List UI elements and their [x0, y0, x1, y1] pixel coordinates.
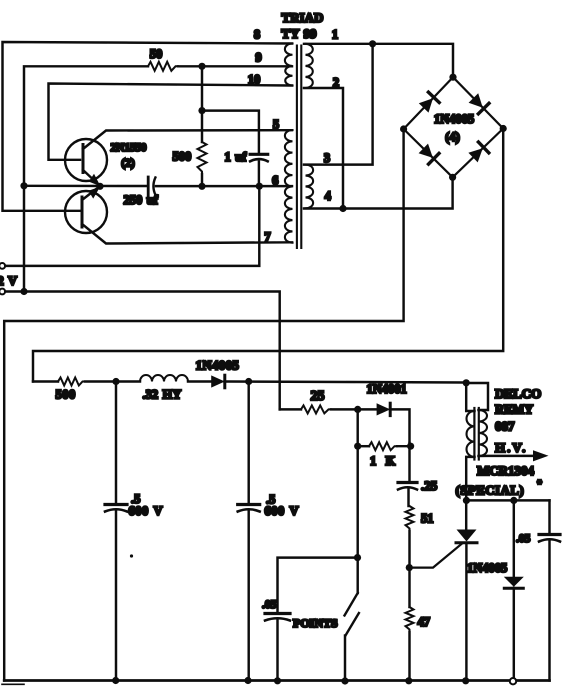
capacitor .25: [398, 483, 417, 490]
svg-text:1: 1: [370, 454, 376, 468]
svg-text:TY 99: TY 99: [281, 26, 317, 41]
label .25: [421, 478, 438, 493]
label POINTS: [293, 616, 338, 630]
svg-text:REMY: REMY: [495, 403, 533, 417]
wire node to 1uf cap: [202, 111, 259, 153]
node anode-diode junction: [510, 497, 517, 504]
svg-text:600 V: 600 V: [265, 504, 299, 518]
label 1 K: [370, 454, 396, 468]
wire below resistor 500: [201, 174, 203, 186]
wire node to 47: [408, 568, 410, 607]
node lineB delco: [463, 379, 470, 386]
wire points bottom: [344, 636, 346, 682]
transformer T1 core: [297, 46, 301, 249]
wire .05 right bottom: [548, 541, 550, 681]
node rail diode: [510, 678, 516, 684]
label .05 left: [262, 599, 277, 611]
wire pin6 line: [24, 185, 147, 188]
label 1N4005 bottom: [467, 561, 507, 575]
capacitor .05 left: [265, 614, 290, 621]
label pin 9: [255, 51, 261, 65]
svg-text:8: 8: [254, 27, 260, 41]
node 1uf bottom: [256, 183, 263, 190]
diode 1N4005 bottom: [504, 577, 524, 588]
wire H.V. output: [479, 455, 536, 458]
label 2 V: [0, 274, 17, 288]
wire bottom rail: [4, 679, 549, 682]
node gate junction: [406, 564, 413, 571]
wire .05 left bottom: [276, 621, 278, 681]
label 500 bottom: [56, 388, 76, 402]
wire lineB seg3: [188, 380, 211, 382]
svg-text:.25: .25: [421, 478, 438, 493]
wire pin8 top-left loop: [3, 42, 293, 211]
label 600 V #1: [129, 504, 163, 518]
svg-text:10: 10: [248, 73, 261, 87]
capacitor 250uf right plate: [153, 178, 155, 196]
node pin2-pin4 junction: [339, 205, 346, 212]
label TRIAD: [282, 10, 324, 25]
wire lineC mid: [331, 408, 377, 410]
wire 1uf bottom: [258, 162, 260, 187]
label 47: [418, 615, 431, 629]
diode bridge top-left: [419, 92, 439, 112]
SCR gate: [409, 544, 462, 568]
label 1 uf: [225, 150, 248, 164]
node bridge left: [400, 125, 407, 132]
transformer T2 primary winding: [467, 411, 475, 457]
wire pin3 riser: [304, 44, 373, 165]
svg-text:(4): (4): [445, 130, 460, 144]
stray speck: [130, 554, 133, 557]
svg-text:TRIAD: TRIAD: [282, 10, 324, 25]
wire 47 bottom: [408, 632, 410, 681]
wire SCR anode line: [466, 499, 549, 501]
node bridge right: [500, 125, 507, 132]
wire above resistor 500: [201, 111, 203, 142]
wire lineB seg2: [85, 380, 140, 382]
label 087: [495, 418, 515, 433]
transistor Q1 circle: [65, 139, 107, 181]
node 1K left: [354, 443, 361, 450]
node pin6 left: [20, 182, 27, 189]
stray mark below rail: [2, 683, 24, 685]
svg-text:.32 HY: .32 HY: [143, 388, 182, 402]
label pin 5: [273, 117, 279, 131]
wire pin2 riser: [304, 88, 343, 209]
node rail SCR: [462, 677, 469, 684]
node lineC junction: [354, 406, 361, 413]
node lineB cap1: [112, 378, 119, 385]
node 500/1uf junction: [198, 107, 205, 114]
wire bridge edge bottom-left: [404, 129, 453, 177]
wire 1K left stub: [358, 445, 369, 447]
wire bridge edge top-left: [404, 77, 453, 129]
label 250 uf: [124, 193, 159, 207]
node rail points: [341, 677, 348, 684]
svg-text:1N4005: 1N4005: [434, 112, 474, 126]
label (4) bridge: [445, 130, 460, 144]
transistor Q2 emitter arrow: [89, 187, 101, 199]
transformer T2 secondary winding: [479, 410, 488, 456]
transistor Q2 collector: [82, 224, 292, 244]
diode bridge bottom-left: [419, 144, 439, 165]
wire .25 top stub: [408, 443, 410, 482]
label pin 2: [333, 76, 339, 90]
transformer T1 winding 5-7: [285, 130, 293, 243]
svg-text:(2): (2): [121, 158, 135, 170]
wire cap2 bottom: [247, 512, 249, 681]
capacitor .05 right: [539, 535, 560, 542]
wire bridge left to left rail: [4, 129, 403, 681]
diode 1N4001: [377, 403, 391, 415]
wire lineC right: [390, 409, 410, 443]
label (2): [121, 158, 135, 170]
svg-text:H.V.: H.V.: [495, 440, 527, 455]
label 1N4005 lineB: [196, 358, 240, 373]
svg-text:50: 50: [150, 47, 163, 61]
wire lineC left: [280, 408, 301, 410]
node bridge top: [449, 74, 456, 81]
label .32 HY: [143, 388, 182, 402]
svg-text:47: 47: [418, 615, 431, 629]
wire terminal2 line: [5, 292, 280, 410]
svg-text:2N1550: 2N1550: [111, 142, 147, 154]
wire cap1 top: [115, 382, 117, 504]
svg-text:*: *: [537, 479, 542, 490]
svg-text:500: 500: [56, 388, 76, 402]
svg-text:1N4005: 1N4005: [467, 561, 507, 575]
svg-text:K: K: [386, 454, 396, 468]
wire lineB left stub: [33, 380, 58, 382]
switch points blade upper: [345, 593, 358, 616]
terminal circle upper: [0, 263, 5, 269]
resistor 51: [406, 506, 414, 531]
label 1N4005 bridge: [434, 112, 474, 126]
svg-text:250 uf: 250 uf: [124, 193, 159, 207]
node terminal2 riser: [20, 288, 27, 295]
wire pin4 line: [304, 177, 453, 208]
wire cap2 top: [247, 382, 249, 504]
svg-text:1 uf: 1 uf: [225, 150, 248, 164]
label 500 top: [173, 149, 192, 163]
node emitter junction: [96, 183, 103, 190]
label H.V.: [495, 440, 527, 455]
node rail .05 left: [274, 677, 281, 684]
label REMY: [495, 403, 533, 417]
label pin 7: [264, 230, 270, 244]
label 2N1550: [111, 142, 147, 154]
label 50: [150, 47, 163, 61]
label (SPECIAL)*: [456, 479, 543, 498]
svg-text:5: 5: [273, 117, 279, 131]
wire delco primary top: [466, 383, 474, 411]
node .05 branch: [354, 554, 361, 561]
label DELCO: [495, 386, 541, 401]
node SCR anode line left: [463, 497, 470, 504]
svg-text:POINTS: POINTS: [293, 616, 338, 630]
wire bridge edge bottom-right: [453, 129, 504, 178]
node rail cap2: [244, 677, 251, 684]
svg-text:7: 7: [264, 230, 270, 244]
node pin9-500 junction: [198, 63, 205, 70]
transistor Q1 base bar: [82, 145, 85, 173]
transistor Q2 emitter: [82, 188, 98, 200]
svg-text:1N4001: 1N4001: [367, 382, 407, 396]
svg-text:600 V: 600 V: [129, 504, 163, 518]
switch points blade lower: [346, 613, 359, 636]
wire 500 top riser: [201, 66, 203, 110]
wire 51 to node: [408, 531, 410, 568]
svg-text:1N4005: 1N4005: [196, 358, 240, 373]
inductor .32 HY: [140, 375, 188, 381]
node lineB cap2: [245, 378, 252, 385]
svg-text:9: 9: [255, 51, 261, 65]
wire .05 branch: [278, 558, 358, 612]
transistor Q2 circle: [65, 191, 107, 233]
svg-text:4: 4: [325, 189, 332, 203]
label pin 3: [324, 151, 330, 165]
transistor Q2 base bar: [81, 197, 84, 227]
capacitor 1uf plates: [250, 154, 268, 161]
svg-text:087: 087: [495, 418, 515, 433]
capacitor 250uf left plate: [147, 177, 150, 196]
svg-text:2: 2: [333, 76, 339, 90]
capacitor .5 600V #1: [105, 505, 127, 512]
transistor Q1 emitter: [83, 170, 99, 185]
diode bridge top-right: [469, 93, 489, 114]
wire bridge edge top-right: [453, 77, 503, 128]
wire delco bottom to SCR: [466, 457, 474, 529]
wire .25 to 51: [407, 490, 409, 507]
wire pin1 to bridge: [304, 44, 453, 77]
wire mid vertical upper: [356, 409, 358, 446]
wire pin6 line right: [156, 185, 292, 187]
svg-text:.05: .05: [516, 533, 531, 545]
label .5 #1: [131, 492, 140, 506]
label 1N4001: [367, 382, 407, 396]
node rail 47: [405, 677, 412, 684]
wire 1K right stub: [397, 445, 411, 447]
transformer T2 core: [474, 408, 478, 460]
label 600 V #2: [265, 504, 299, 518]
svg-text:2 V: 2 V: [0, 274, 17, 288]
transformer T1 winding 3-4: [306, 165, 314, 209]
wire diode 1N4005 top: [513, 500, 515, 577]
svg-text:(SPECIAL): (SPECIAL): [456, 483, 525, 498]
wire terminal1 line: [5, 186, 259, 266]
SCR triangle: [457, 530, 477, 542]
label MCR1304: [477, 463, 535, 478]
resistor 25: [301, 405, 331, 413]
label pin 10: [248, 73, 261, 87]
node 500 bottom: [198, 183, 205, 190]
svg-text:3: 3: [324, 151, 330, 165]
arrow H.V.: [533, 450, 549, 461]
label pin 1: [332, 28, 338, 42]
wire cap1 bottom: [115, 512, 117, 681]
label 51: [421, 512, 434, 526]
resistor 47: [406, 607, 414, 632]
svg-text:25: 25: [311, 389, 325, 404]
wire pin9 line: [24, 66, 148, 291]
label pin 6: [272, 173, 278, 187]
node pin1-pin3 junction: [369, 40, 376, 47]
diode 1N4005 lineB: [211, 375, 225, 388]
wire SCR cathode down: [465, 543, 467, 681]
svg-text:6: 6: [272, 173, 278, 187]
wire delco secondary top: [466, 383, 488, 410]
transistor Q1 emitter arrow: [89, 174, 101, 186]
resistor 1K: [369, 442, 397, 450]
node 1K right: [407, 443, 414, 450]
wire bridge right to line A: [33, 129, 503, 382]
wire pin10 and Q1 base riser: [49, 84, 293, 160]
label pin 8: [254, 27, 260, 41]
svg-text:MCR1304: MCR1304: [477, 463, 535, 478]
capacitor .5 600V #2: [238, 505, 260, 512]
transformer T1 winding 8-10: [285, 44, 293, 86]
label .05 right: [516, 533, 531, 545]
wire lineB seg4: [225, 382, 467, 383]
svg-text:500: 500: [173, 149, 192, 163]
svg-text:1: 1: [332, 28, 338, 42]
resistor 500 top: [198, 142, 207, 174]
node rail cap1: [112, 677, 119, 684]
wire .05 right top: [548, 500, 550, 532]
svg-text:51: 51: [421, 512, 434, 526]
wire pin9 line right of resistor: [178, 65, 292, 67]
wire mid vertical to points: [356, 446, 358, 593]
node bridge bottom: [449, 174, 456, 181]
resistor 50: [148, 62, 178, 71]
transistor Q1 collector: [83, 130, 292, 149]
svg-text:DELCO: DELCO: [495, 386, 541, 401]
wire diode 1N4005 bottom: [513, 588, 515, 681]
SCR cathode bar: [456, 541, 477, 544]
resistor 500 bottom: [58, 378, 85, 386]
transformer T1 winding 1-2: [306, 44, 313, 88]
label .5 #2: [266, 493, 275, 507]
terminal circle lower: [0, 289, 5, 295]
label pin 4: [325, 189, 332, 203]
diode bridge bottom-right: [468, 142, 488, 162]
label 25: [311, 389, 325, 404]
label TY 99: [281, 26, 317, 41]
svg-text:.05: .05: [262, 599, 277, 611]
